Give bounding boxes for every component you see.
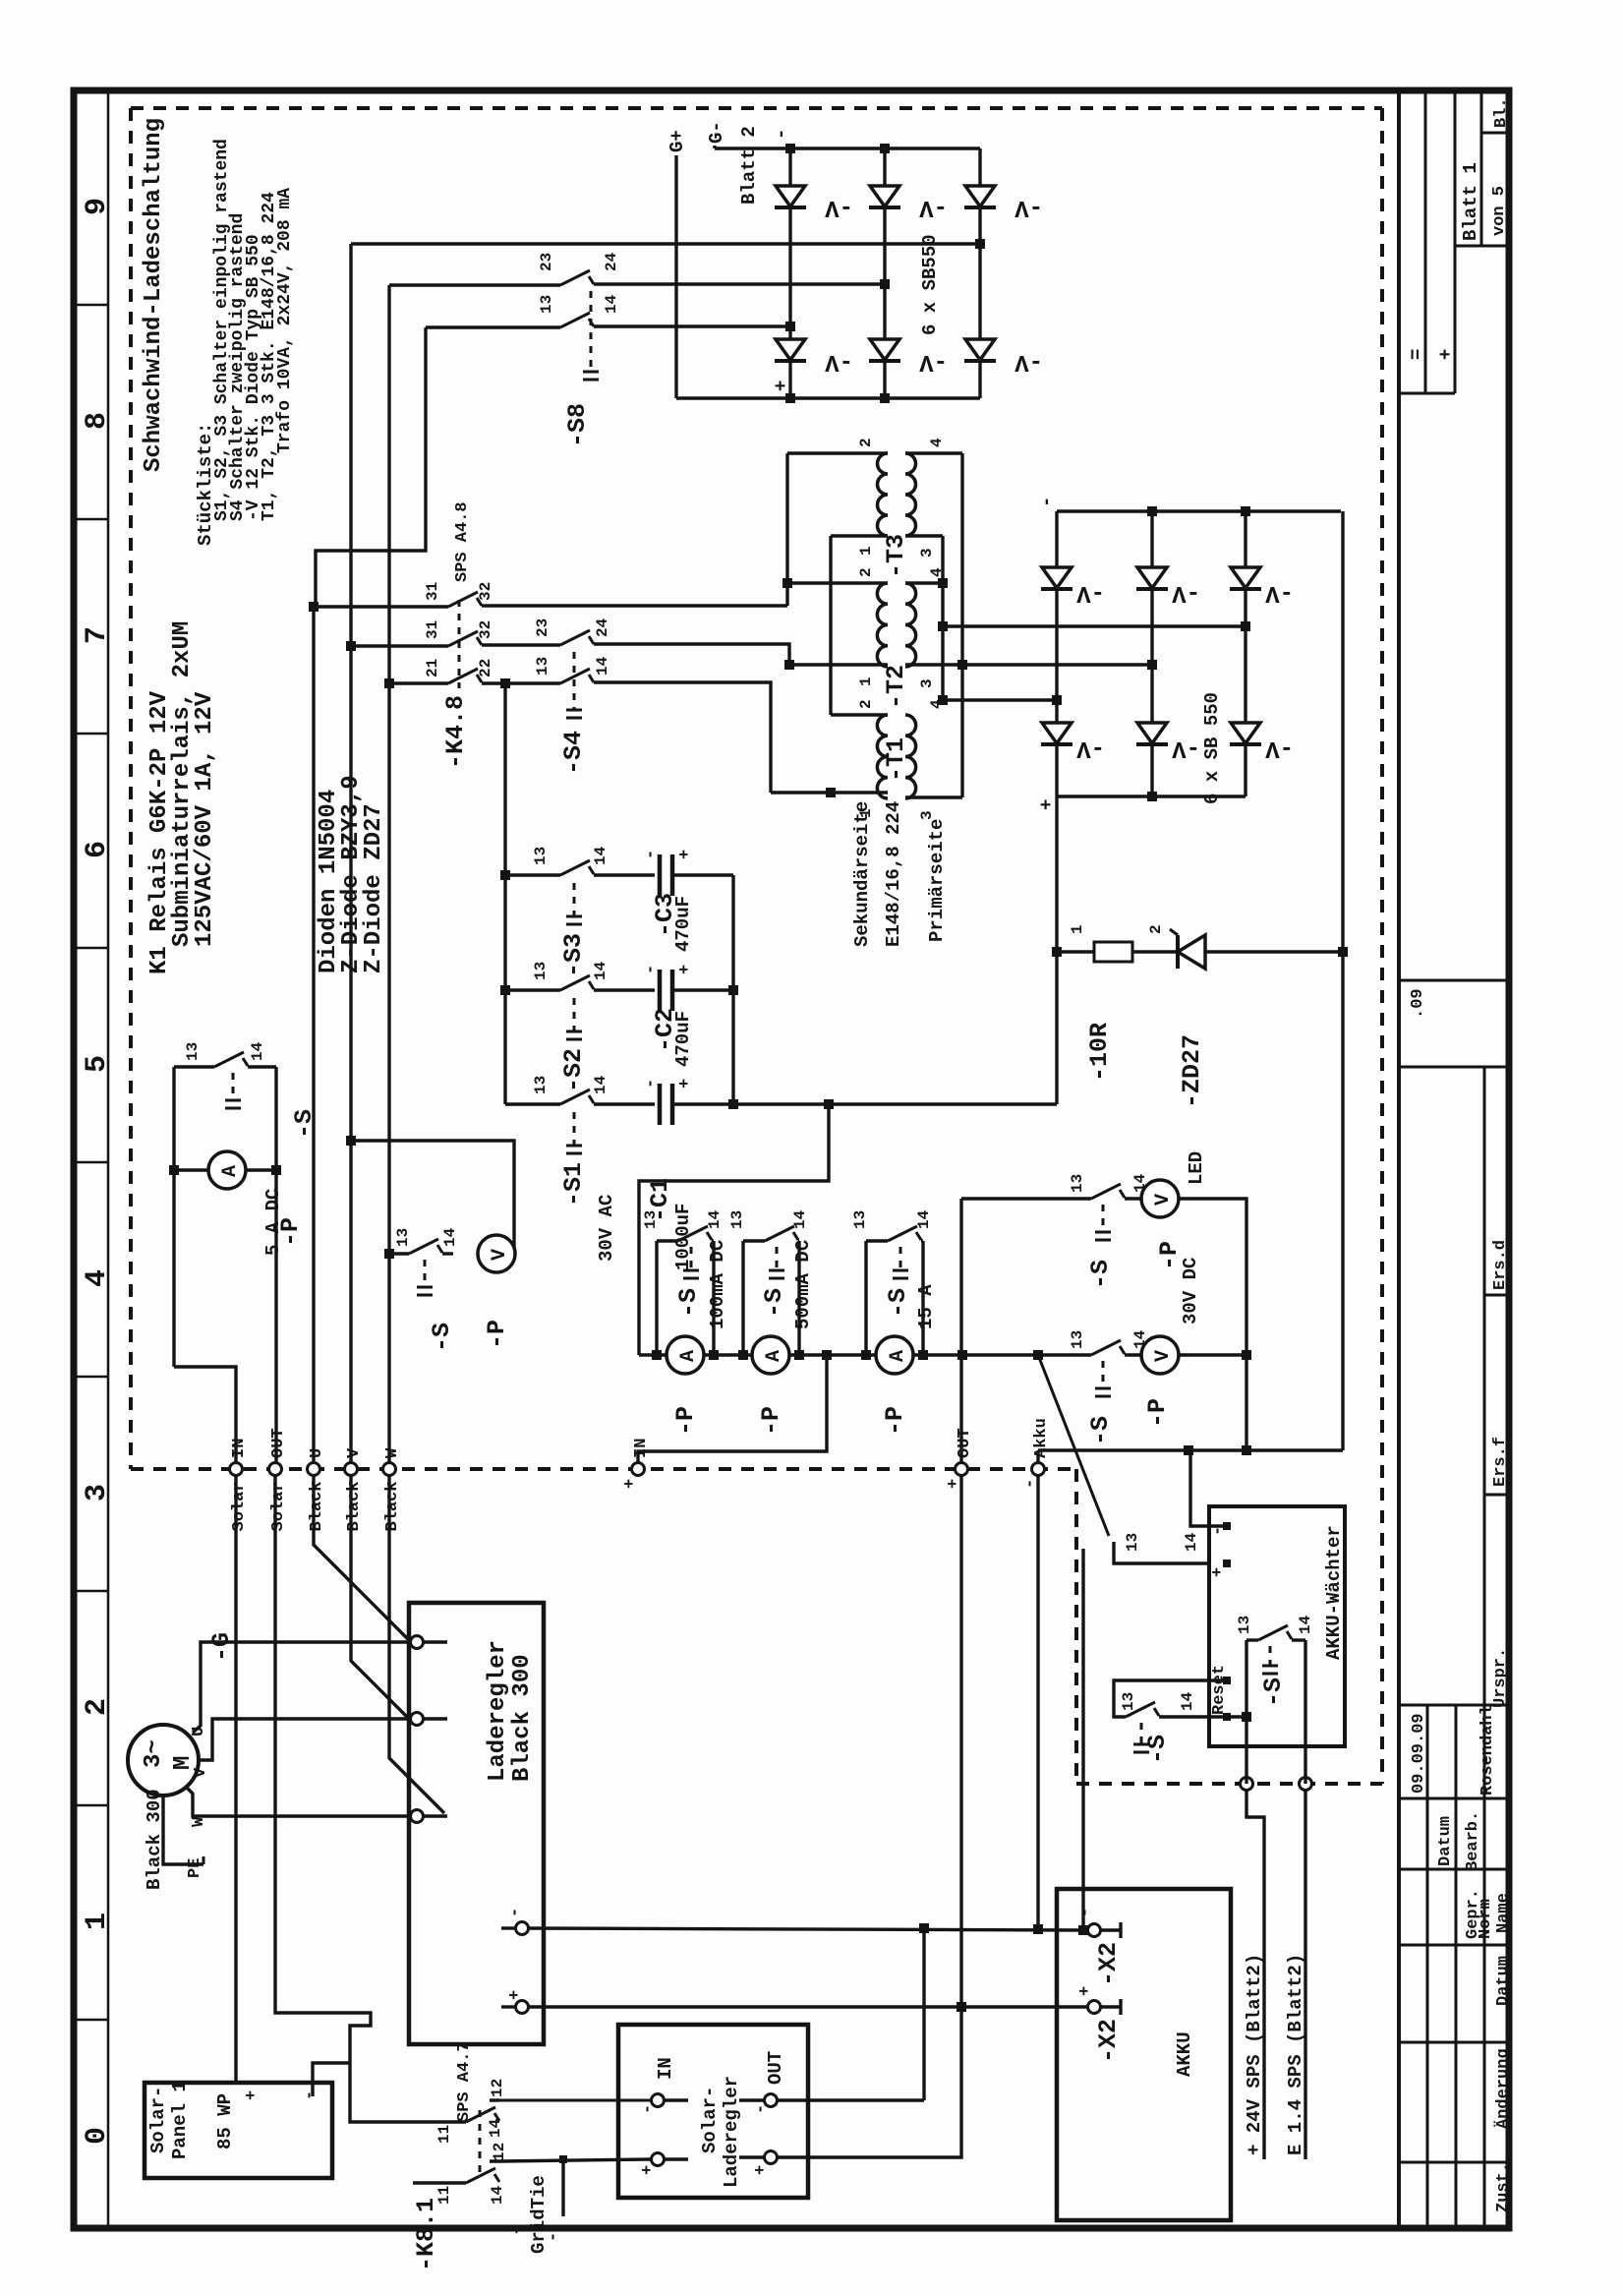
- Laderegler output - terminal: [516, 1922, 529, 1935]
- wire Black V vertical: [349, 244, 352, 1463]
- svg-text:+: +: [243, 2090, 261, 2100]
- svg-text:-S4: -S4: [559, 731, 588, 775]
- svg-text:14: 14: [249, 1041, 266, 1061]
- title block column divider x1510: [1483, 1067, 1486, 2228]
- svg-text:Ers.d: Ers.d: [1491, 1240, 1510, 1290]
- svg-text:13: 13: [642, 1210, 660, 1229]
- svg-text:Black 300: Black 300: [509, 1654, 536, 1782]
- svg-text:3: 3: [918, 810, 936, 820]
- Solar-Laderegler box: [618, 2025, 808, 2198]
- Laderegler input terminal 2: [411, 1713, 424, 1726]
- svg-text:-: -: [752, 2104, 771, 2114]
- svg-text:+: +: [1036, 799, 1058, 810]
- wire LED voltmeter to minus riser: [1179, 1199, 1246, 1450]
- switch Reset -S blade: [1126, 1702, 1155, 1717]
- svg-text:23: 23: [538, 253, 555, 271]
- svg-text:21: 21: [424, 659, 441, 677]
- voltmeter -P 30V AC: [478, 1235, 515, 1272]
- svg-text:14: 14: [1297, 1615, 1314, 1634]
- svg-text:11: 11: [435, 2125, 453, 2144]
- generator lead W: [187, 1788, 411, 1816]
- switch -S 30VDC blade: [1091, 1340, 1121, 1355]
- svg-text:AKKU: AKKU: [1174, 2031, 1195, 2077]
- svg-text:Black: Black: [308, 1481, 326, 1531]
- transformer T2 primary winding: [905, 583, 916, 667]
- svg-text:3: 3: [918, 678, 936, 688]
- junction L2/branch2: [880, 279, 890, 289]
- switch -S branch: [866, 1239, 888, 1242]
- svg-text:1: 1: [857, 677, 875, 686]
- wire T2.4 stub: [905, 581, 943, 584]
- svg-text:85 WP: 85 WP: [214, 2093, 236, 2149]
- junction L3/branch1: [785, 322, 795, 331]
- junction +OUT riser: [957, 1350, 967, 1360]
- wire L3 after S8 to rectifier branch1: [594, 324, 790, 327]
- junction -Akku node on rail: [1033, 1350, 1043, 1360]
- svg-text:31: 31: [424, 620, 441, 639]
- svg-text:-P: -P: [881, 1406, 909, 1436]
- svg-text:Solar-: Solar-: [147, 2087, 169, 2153]
- relay K8.1 contact row B: [413, 2181, 466, 2184]
- title block row line y1978: [1399, 1944, 1509, 1947]
- svg-text:-: -: [639, 2104, 658, 2114]
- terminal SPS E1.4 (on lower dashed): [1300, 1778, 1312, 1791]
- svg-text:=: =: [1406, 349, 1427, 360]
- wire +OUT riser: [959, 1355, 962, 1463]
- svg-text:6 x SB 550: 6 x SB 550: [1201, 692, 1223, 804]
- junction -Akku drop: [1033, 1924, 1043, 1934]
- svg-text:09.09.09: 09.09.09: [1410, 1713, 1428, 1794]
- svg-text:A: A: [219, 1165, 242, 1177]
- actuator internal: [1269, 1646, 1272, 1666]
- svg-text:SPS A4.7: SPS A4.7: [455, 2041, 474, 2122]
- wire plus rail from Laderegler: [529, 2005, 1088, 2008]
- svg-text:13: 13: [538, 295, 555, 314]
- wire + output down: [1055, 796, 1058, 1104]
- svg-text:3~: 3~: [141, 1739, 167, 1768]
- svg-text:-V: -V: [825, 348, 853, 375]
- svg-text:-V: -V: [1172, 735, 1200, 761]
- svg-text:OUT: OUT: [269, 1428, 288, 1458]
- title block: Blatt cells: [1424, 90, 1427, 393]
- svg-text:+: +: [1435, 349, 1457, 360]
- wire T3.2/T2.2 bracket: [785, 453, 788, 606]
- junction Black W / K4.8 row3: [384, 678, 394, 688]
- svg-text:100mA DC: 100mA DC: [707, 1240, 728, 1329]
- svg-text:0: 0: [81, 2127, 114, 2145]
- upper rectifier branch 2 lower diode -V: [870, 339, 899, 360]
- svg-text:Solar-: Solar-: [699, 2087, 721, 2153]
- switch -S actuator link: [690, 1247, 693, 1270]
- junction Black W / V-meter switch: [384, 1249, 394, 1259]
- svg-text:-V: -V: [825, 194, 853, 220]
- switch -S actuator link: [424, 1260, 427, 1287]
- wire minus rail from Laderegler: [529, 1928, 1088, 1930]
- lower rectifier branch 1 upper diode -V: [1055, 511, 1058, 567]
- svg-text:Sekundärseite: Sekundärseite: [851, 801, 873, 947]
- terminal + of Waechter: [1223, 1560, 1231, 1567]
- svg-text:+: +: [676, 965, 695, 974]
- svg-text:Solar: Solar: [269, 1481, 288, 1531]
- svg-text:-V: -V: [1265, 735, 1294, 761]
- upper rectifier branch 2 upper diode -V: [883, 148, 886, 186]
- title block line y1085: [1399, 1066, 1509, 1069]
- lower rectifier branch 2 lower diode -V: [1137, 723, 1167, 743]
- svg-text:14: 14: [487, 2118, 504, 2138]
- ammeter P3 15 A: [876, 1336, 913, 1374]
- svg-text:1: 1: [81, 1913, 114, 1930]
- wire +OUT drop to Solar-Laderegler OUT+: [777, 1476, 961, 2157]
- svg-text:Black: Black: [383, 1481, 402, 1531]
- wire L1 phase V to rectifier branch3: [351, 242, 980, 245]
- svg-text:6: 6: [81, 841, 114, 858]
- svg-text:+: +: [509, 2224, 528, 2234]
- svg-text:W: W: [383, 1447, 402, 1458]
- svg-text:-P: -P: [671, 1406, 700, 1436]
- junction: [785, 393, 795, 403]
- switch S8 pole 23-24 blade: [560, 270, 590, 285]
- svg-text:125VAC/60V 1A, 12V: 125VAC/60V 1A, 12V: [192, 691, 218, 947]
- svg-text:-K4.8: -K4.8: [441, 695, 470, 769]
- svg-text:3: 3: [918, 548, 936, 558]
- svg-text:-T1: -T1: [882, 737, 910, 782]
- junction rails: [861, 1350, 871, 1360]
- svg-text:6 x SB550: 6 x SB550: [919, 234, 941, 335]
- svg-text:32: 32: [477, 582, 494, 601]
- svg-text:A: A: [887, 1350, 909, 1362]
- svg-text:-S8: -S8: [563, 403, 592, 447]
- wire T1.1 stub: [771, 791, 888, 794]
- junction rails: [652, 1350, 662, 1360]
- wire S-block left rail: [503, 683, 506, 1104]
- svg-text:Laderegler: Laderegler: [485, 1640, 511, 1782]
- terminal Reset return: [1223, 1713, 1231, 1721]
- terminal Black U: [308, 1463, 320, 1476]
- svg-text:2: 2: [857, 699, 875, 709]
- svg-text:13: 13: [728, 1210, 746, 1229]
- wire -C3 to output rail: [672, 873, 733, 876]
- dashed system boundary box: [131, 106, 1382, 110]
- svg-text:-P: -P: [1143, 1398, 1172, 1428]
- upper rectifier branch 3 upper diode -V: [978, 148, 981, 186]
- svg-text:Zust.: Zust.: [1494, 2162, 1513, 2212]
- svg-text:Primärseite: Primärseite: [926, 819, 948, 942]
- OUT+ terminal: [765, 2151, 778, 2164]
- junction +OUT / plus rail: [956, 2002, 966, 2012]
- svg-text:-K8.1: -K8.1: [412, 2198, 440, 2271]
- voltmeter -P 30V DC: [1141, 1336, 1179, 1374]
- junction minus riser: [1242, 1350, 1251, 1360]
- generator lead PE: [163, 1796, 203, 1864]
- switch -S inside Waechter branch: [1246, 1638, 1258, 1641]
- svg-text:-: -: [301, 2090, 319, 2100]
- svg-text:-S: -S: [290, 1109, 319, 1139]
- svg-text:-ZD27: -ZD27: [1178, 1034, 1206, 1108]
- title block row line y2199: [1399, 2161, 1509, 2164]
- svg-text:AKKU-Wächter: AKKU-Wächter: [1323, 1525, 1345, 1660]
- svg-text:W: W: [190, 1816, 208, 1827]
- switch -S actuator link: [899, 1247, 902, 1270]
- ammeter P1 100mA DC: [667, 1336, 704, 1374]
- svg-text:-S3: -S3: [559, 933, 588, 977]
- wire -C2 to output rail: [672, 988, 733, 991]
- wire OUT- riser: [922, 1928, 925, 2100]
- wire X2 riser to blade: [1081, 1549, 1084, 1930]
- wire T3.3 stub: [905, 534, 943, 537]
- title block separator line: [1397, 90, 1401, 2228]
- svg-text:-G: -G: [207, 1632, 236, 1662]
- svg-text:-V: -V: [1014, 348, 1043, 375]
- svg-text:Reset: Reset: [1210, 1665, 1229, 1715]
- svg-text:14: 14: [594, 656, 611, 676]
- svg-text:+ 24V SPS (Blatt2): + 24V SPS (Blatt2): [1244, 1954, 1265, 2155]
- svg-text:GridTie: GridTie: [528, 2175, 550, 2254]
- title block line y1520: [1484, 1494, 1509, 1497]
- switch -S LED blade: [1091, 1184, 1121, 1199]
- AKKU-Waechter box: [1209, 1506, 1345, 1746]
- svg-text:V: V: [345, 1447, 364, 1458]
- svg-text:4: 4: [928, 438, 946, 447]
- svg-text:-S1: -S1: [559, 1162, 588, 1207]
- wire primary outer bracket T3.4-T1.3: [960, 453, 963, 797]
- svg-text:30V AC: 30V AC: [596, 1195, 617, 1262]
- transformer T1 primary winding: [905, 715, 916, 798]
- svg-text:7: 7: [81, 626, 114, 644]
- svg-text:12: 12: [491, 2143, 508, 2161]
- terminal -Akku: [1032, 1463, 1045, 1476]
- wire T2.3 stub + AC line to branch2: [905, 663, 1152, 666]
- svg-text:-S: -S: [1086, 1260, 1115, 1289]
- ammeter bypass switch rails: [864, 1241, 867, 1355]
- switch -S actuator link: [776, 1247, 779, 1270]
- wire T3.1 stub: [831, 534, 888, 537]
- wire internal contact to SPS +24V: [1245, 1640, 1247, 1784]
- svg-text:5 A DC: 5 A DC: [262, 1189, 284, 1256]
- svg-text:-P: -P: [483, 1320, 511, 1349]
- junction C2 out: [728, 985, 738, 995]
- svg-text:-: -: [1076, 1908, 1095, 1917]
- svg-text:von 5: von 5: [1490, 186, 1509, 236]
- svg-text:-S: -S: [884, 1288, 912, 1318]
- wire T3.1/T1.2 bracket: [829, 536, 832, 715]
- ammeter P2 500mA DC: [752, 1336, 789, 1374]
- wire SPS E1.4 below dashed: [1304, 1790, 1306, 2159]
- wire Black U diagonal to Laderegler: [314, 1475, 411, 1642]
- svg-text:13: 13: [534, 657, 551, 676]
- svg-text:V: V: [192, 1767, 210, 1778]
- wire Solar OUT to K8.1: [275, 1475, 466, 2122]
- title block row line y1901: [1399, 1868, 1509, 1871]
- capacitor C1 plates: [658, 1084, 663, 1125]
- svg-text:-V: -V: [1076, 735, 1105, 761]
- switch S8 pole 13-14 blade: [560, 313, 590, 327]
- svg-text:1000uF: 1000uF: [672, 1204, 694, 1270]
- wire left rail to Solar IN: [174, 1367, 236, 1463]
- Laderegler input terminal 1: [411, 1636, 424, 1649]
- wire cap output rail: [731, 875, 734, 1104]
- capacitor -C3 plates: [658, 854, 663, 896]
- switch -S branch: [743, 1239, 765, 1242]
- svg-text:14: 14: [1183, 1532, 1200, 1552]
- junction T2.3: [957, 660, 967, 670]
- svg-text:IN: IN: [655, 2057, 676, 2080]
- zener diode -ZD27: [1176, 935, 1180, 969]
- svg-text:5: 5: [81, 1055, 114, 1073]
- wire terminal tie inside box: [1227, 1715, 1246, 1718]
- svg-text:-T2: -T2: [882, 665, 910, 709]
- svg-text:-P: -P: [1155, 1241, 1184, 1270]
- svg-text:13: 13: [184, 1042, 202, 1061]
- voltmeter -P LED: [1141, 1180, 1179, 1217]
- junction: [1147, 792, 1157, 801]
- lower rectifier branch 1 lower diode -V: [1042, 723, 1072, 743]
- svg-text:Akku: Akku: [1032, 1418, 1051, 1458]
- title block line y1734: [1399, 1704, 1509, 1707]
- junction DC node: [824, 1099, 834, 1109]
- svg-text:13: 13: [394, 1228, 412, 1247]
- switch -S2 actuator link: [573, 998, 576, 1031]
- relay K4.8 row1 contact 31-32: [314, 605, 448, 608]
- switch Reset actuator link: [1140, 1723, 1143, 1744]
- terminal +OUT: [956, 1463, 968, 1476]
- transformer T3 secondary winding: [878, 453, 889, 536]
- wire -Akku drop: [1036, 1475, 1039, 1929]
- wire meter to riser: [514, 1252, 515, 1255]
- wire L2 after S8 to rectifier branch2: [594, 282, 885, 285]
- svg-text:14: 14: [1179, 1691, 1196, 1711]
- wire L2 phase W to S8 pole 23-24: [389, 283, 560, 286]
- svg-text:Datum: Datum: [1436, 1816, 1455, 1866]
- relay K4.8 actuator link: [458, 600, 461, 688]
- switch -S branch: [657, 1239, 678, 1242]
- svg-text:14: 14: [791, 1209, 809, 1229]
- svg-text:-: -: [642, 1079, 661, 1089]
- svg-text:-V: -V: [1076, 579, 1105, 606]
- AC tap to branch1: [1052, 695, 1062, 705]
- terminal Solar IN: [230, 1463, 243, 1476]
- svg-text:-V: -V: [919, 348, 948, 375]
- junction: [1147, 506, 1157, 516]
- junction T2.2: [783, 578, 792, 588]
- svg-text:Blatt 2: Blatt 2: [738, 126, 760, 205]
- svg-text:2: 2: [857, 567, 875, 577]
- switch S8 actuator link: [590, 291, 593, 372]
- junction AC 637: [938, 621, 948, 631]
- svg-text:+: +: [752, 2165, 771, 2175]
- wire L3 jog from phase U: [314, 605, 316, 608]
- wire to voltmeter 30VDC: [1125, 1353, 1141, 1356]
- switch S4 pole 23-24 blade: [560, 630, 590, 645]
- svg-text:.09: .09: [1409, 988, 1427, 1019]
- Laderegler Black 300 box: [409, 1603, 544, 2044]
- ruler column divider: [107, 90, 110, 2228]
- junction S-rail feed: [500, 678, 510, 688]
- svg-text:470uF: 470uF: [672, 1011, 694, 1067]
- svg-text:Z-Diode ZD27: Z-Diode ZD27: [361, 803, 387, 973]
- svg-text:14: 14: [706, 1209, 724, 1229]
- lower rectifier branch 3 lower diode -V: [1231, 723, 1260, 743]
- wire G- stub: [713, 146, 716, 148]
- svg-text:Bearb.: Bearb.: [1464, 1811, 1482, 1871]
- svg-text:2: 2: [1147, 924, 1165, 934]
- junction 10R tap: [1052, 947, 1062, 957]
- svg-text:14: 14: [592, 961, 609, 980]
- svg-text:U: U: [308, 1448, 326, 1458]
- wire OUT- to Solar-Laderegler: [777, 2098, 924, 2101]
- svg-text:13: 13: [1124, 1533, 1141, 1552]
- upper rectifier branch 1 upper diode -V: [788, 148, 791, 186]
- svg-text:-: -: [1036, 497, 1058, 507]
- AC tap to branch3: [1241, 621, 1250, 631]
- right rail to Solar OUT: [274, 1067, 277, 1463]
- svg-text:500mA DC: 500mA DC: [792, 1240, 814, 1329]
- svg-text:Änderung: Änderung: [1493, 2048, 1513, 2129]
- wire internal contact to SPS E1.4: [1304, 1640, 1306, 1784]
- terminal - of Waechter: [1223, 1522, 1231, 1530]
- wire T3.2 stub: [787, 451, 888, 454]
- svg-text:-S: -S: [760, 1288, 788, 1318]
- svg-text:-S2: -S2: [559, 1048, 588, 1092]
- svg-text:12: 12: [489, 2079, 506, 2097]
- svg-text:E148/16,8 224: E148/16,8 224: [883, 801, 904, 947]
- wire minus return rail: [1038, 1448, 1343, 1451]
- svg-text:-P: -P: [757, 1406, 785, 1436]
- wire DC node down to ammeter rail: [639, 1104, 829, 1355]
- junction voltmeter return: [1242, 1445, 1251, 1455]
- junction S2 branch: [500, 985, 510, 995]
- lower rectifier + bus: [1057, 795, 1246, 797]
- ammeter bypass switch rails: [655, 1241, 658, 1355]
- terminal +IN: [632, 1463, 645, 1476]
- terminal SPS +24V (on lower dashed): [1241, 1778, 1253, 1791]
- terminal Solar OUT: [269, 1463, 282, 1476]
- svg-text:LED: LED: [1186, 1151, 1207, 1185]
- wire AC line to branch1: [943, 698, 1057, 701]
- ammeter -P 5A DC circuit: left rail: [172, 1067, 175, 1367]
- wire SPS +24V below dashed: [1246, 1790, 1264, 2159]
- svg-text:Black 300: Black 300: [144, 1789, 165, 1890]
- junction T2.4: [938, 578, 948, 588]
- switch -S branch from W: [389, 1252, 409, 1255]
- wire minus rail riser to rectifier: [1341, 511, 1344, 1450]
- svg-text:-S: -S: [428, 1323, 456, 1352]
- svg-text:1: 1: [1069, 924, 1086, 934]
- resistor -10R: [1057, 950, 1094, 953]
- svg-text:Datum: Datum: [1494, 1956, 1513, 2006]
- wire T1.3 stub: [905, 795, 962, 798]
- svg-text:14: 14: [592, 846, 609, 865]
- junction Waechter feed: [1184, 1445, 1193, 1455]
- svg-text:-10R: -10R: [1085, 1023, 1114, 1082]
- junction: [785, 144, 795, 153]
- title block line y997: [1399, 979, 1509, 982]
- switch -S actuator link: [1102, 1205, 1105, 1232]
- svg-text:-X2: -X2: [1094, 2019, 1123, 2063]
- junction Solar-Laderegler OUT- riser: [919, 1923, 929, 1933]
- junction reset-return tie: [1242, 1712, 1251, 1722]
- wire T2.2 stub: [787, 581, 888, 584]
- relay K8.1 actuator link: [479, 2110, 482, 2175]
- svg-text:+: +: [676, 1079, 695, 1089]
- svg-text:9: 9: [81, 198, 114, 215]
- svg-text:Panel 1: Panel 1: [169, 2081, 191, 2159]
- wire feed B to transformer T1.1: [594, 682, 771, 793]
- svg-text:G-: G-: [706, 121, 727, 144]
- svg-text:IN: IN: [230, 1439, 249, 1458]
- svg-text:13: 13: [1120, 1692, 1137, 1711]
- svg-text:-: -: [642, 850, 661, 859]
- lower rectifier branch 3 upper diode -V: [1244, 511, 1246, 567]
